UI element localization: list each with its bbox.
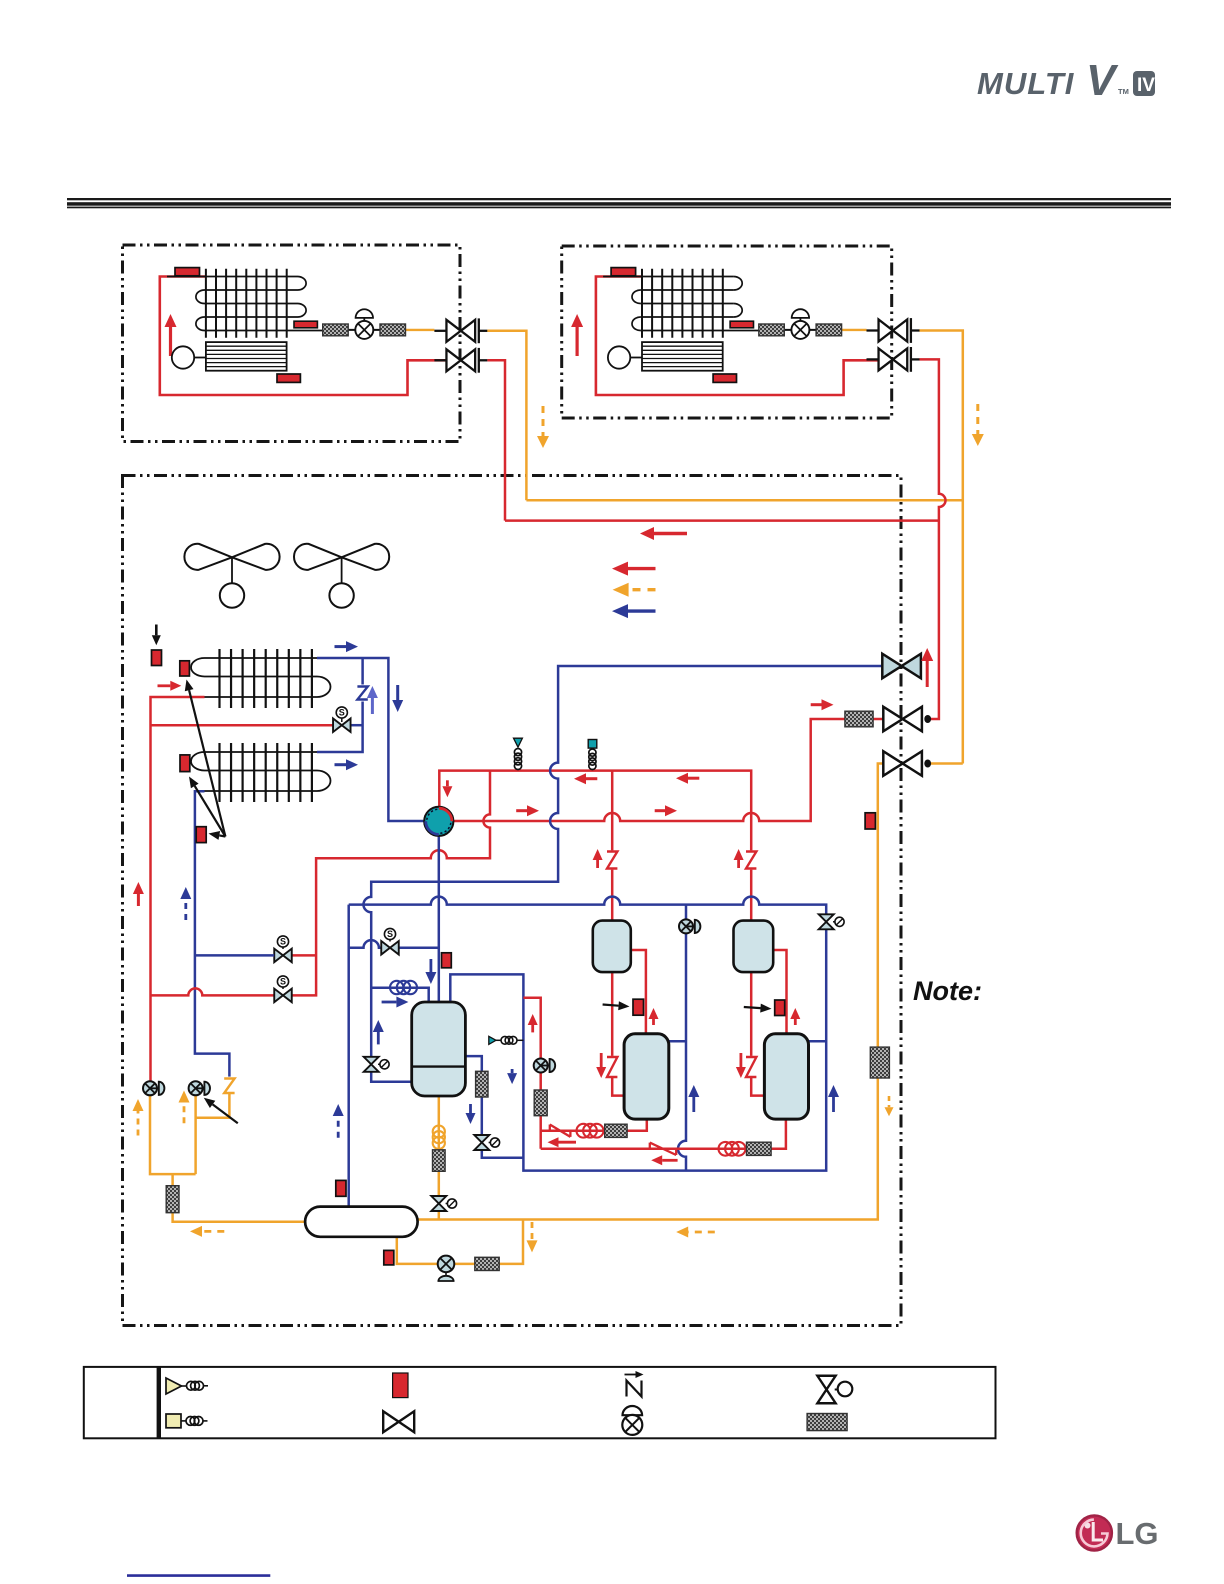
- injection heat-exchange coil: [390, 981, 403, 994]
- separator B oil return with Z break: [751, 972, 764, 1096]
- compressor B: [764, 1034, 808, 1119]
- indoor fan outlet sensor: [277, 374, 300, 382]
- orange dashed up arrow right charge line: [179, 1091, 190, 1124]
- 4-way valve to subcooler pipe: [438, 836, 441, 1002]
- indoor coil inlet temperature sensor: [611, 268, 636, 276]
- indoor unit 1 enclosure: [123, 245, 461, 442]
- double rule: [67, 198, 1171, 200]
- separator A oil return with Z break: [612, 972, 624, 1096]
- legend service valve symbol: [622, 1406, 642, 1435]
- legend arrow orange dashed: [613, 583, 656, 597]
- blue up arrow compressor A leg: [688, 1085, 699, 1112]
- oil equalization line compressor A: [541, 1119, 647, 1131]
- liquid charge valve A: [143, 1081, 164, 1095]
- subcooler outlet strainer: [433, 1150, 446, 1172]
- oil balance ball valve: [883, 751, 931, 776]
- subcooler drain line: [465, 1056, 523, 1158]
- liquid service ball valve: [882, 654, 921, 679]
- discharge sensor A with arrow: [603, 999, 644, 1015]
- accumulator inlet line left: [150, 1095, 305, 1222]
- indoor unit 2 enclosure: [562, 246, 892, 418]
- black callout arrows to sensors: [185, 680, 226, 840]
- indoor strainer 2: [816, 324, 842, 336]
- subcooler solenoid valve SV2: [381, 928, 399, 954]
- svg-text:S: S: [387, 929, 393, 939]
- HP service valve with cap: [534, 1059, 555, 1073]
- subcooler drain strainer: [476, 1071, 488, 1097]
- relief valve on subcooler loop: [489, 1036, 524, 1044]
- subcooler left leg expansion valve EEV2: [364, 1057, 389, 1072]
- liquid pipe indoor1 to trunk: [487, 331, 526, 500]
- outdoor unit enclosure: [123, 476, 902, 1326]
- outdoor fan 1: [184, 544, 279, 608]
- blue down arrow at suction header: [392, 685, 403, 712]
- discharge sensor B with arrow: [744, 1000, 785, 1016]
- red arrow into coil1: [158, 681, 182, 691]
- orange dashed flow arrow at indoor2 drop: [972, 404, 984, 446]
- lower branch red line with hop: [151, 988, 275, 995]
- indoor unit flow arrow: [571, 314, 583, 356]
- outdoor coil 2: [191, 743, 331, 802]
- legend sensor symbol: [393, 1373, 408, 1398]
- red arrow oil line B left: [548, 1137, 577, 1147]
- blue arrow coil1 outlet: [335, 641, 359, 652]
- lower branch solenoid valve SV4: [274, 976, 292, 1002]
- legend capillary symbol: [625, 1371, 644, 1397]
- red arrow oil line B right: [651, 1155, 677, 1165]
- liquid drop to accumulator bottom loop: [397, 1220, 523, 1264]
- discharge bypass drop with hop over line2: [292, 771, 490, 996]
- red flow arrow beside separator A Z: [593, 849, 603, 868]
- subcooler solenoid branch: [349, 940, 439, 948]
- upper branch solenoid valve SV1: [274, 936, 292, 962]
- subcooler drain expansion valve EEV3: [474, 1135, 499, 1150]
- defrost sensor coil2: [180, 755, 190, 772]
- hot-gas line2 from 4-way valve to gas ball valve: [453, 719, 883, 821]
- red up arrow HP branch: [528, 1014, 538, 1032]
- defrost sensor coil1: [180, 661, 190, 676]
- indoor coil outlet sensor: [294, 321, 317, 328]
- orange dashed down arrow right liquid drop: [885, 1096, 894, 1116]
- accumulator suction drop: [347, 905, 350, 1207]
- legend expansion valve symbol: [817, 1376, 852, 1404]
- indoor coil inlet temperature sensor: [175, 268, 200, 276]
- oil return pipe to charge valve line: [196, 1093, 230, 1118]
- indoor unit 1 gas service valve: [434, 348, 487, 373]
- gas service ball valve: [883, 707, 931, 732]
- indoor liquid pipe: [759, 329, 791, 331]
- red arrow before gas ball valve: [811, 699, 834, 710]
- HP branch strainer: [534, 1090, 547, 1116]
- svg-text:S: S: [280, 977, 286, 987]
- indoor strainer 1: [323, 324, 349, 336]
- subcooler liquid out drop: [438, 1096, 441, 1220]
- capillary Z at separator B inlet: [746, 852, 756, 869]
- liquid line ball valve to receiver drop: [418, 764, 963, 1220]
- check valve on oil line A: [550, 1125, 571, 1137]
- legend box: [84, 1367, 996, 1438]
- compressor A right connection: [669, 1040, 686, 1043]
- indoor fan outlet sensor: [713, 374, 736, 382]
- legend arrow red: [612, 562, 656, 576]
- compressor B right connection: [809, 1040, 827, 1043]
- liquid line strainer right: [870, 1047, 889, 1078]
- blue stub coil solenoid to balance pipe: [350, 724, 363, 727]
- LG logo: [1077, 1515, 1159, 1551]
- black callout arrow to charge valve B: [204, 1098, 238, 1123]
- indoor strainer 1: [759, 324, 785, 336]
- red down arrow separator A oil return: [596, 1053, 606, 1078]
- blue line to SV1: [195, 954, 274, 957]
- red line to coil solenoid valve: [151, 724, 335, 727]
- liquid charge valve B: [189, 1081, 210, 1095]
- HP red branch from subcooler loop: [523, 998, 540, 1149]
- footer rule: [127, 1574, 270, 1577]
- Z symbol separator A oil return: [607, 1057, 617, 1077]
- orange dashed down arrow at receiver tee: [527, 1222, 538, 1252]
- blue dashed up arrow left suction: [180, 887, 191, 920]
- subcooler injection branch with coil: [371, 988, 429, 1002]
- Z symbol separator B oil return: [746, 1057, 756, 1077]
- red up arrow left liquid line: [133, 882, 144, 906]
- suction sensor at accumulator: [336, 1180, 346, 1196]
- accumulator: [305, 1207, 418, 1237]
- oil drain service valve: [438, 1256, 455, 1281]
- outdoor fan 2: [294, 544, 389, 608]
- orange dashed up arrow left charge line: [133, 1099, 144, 1136]
- liquid pipe indoor2 to trunk: [920, 331, 963, 764]
- accumulator bottom strainer: [475, 1257, 499, 1270]
- indoor unit 2 gas service valve: [867, 347, 920, 372]
- gas ball valve strainer: [845, 711, 873, 727]
- sensor at liquid drop: [865, 813, 875, 829]
- blue down arrow drain lower: [466, 1104, 476, 1124]
- orange dashed left arrow at accumulator inlet: [190, 1226, 224, 1237]
- blue dashed up arrow at accumulator inlet: [333, 1104, 344, 1138]
- strainer oil line B: [747, 1142, 772, 1155]
- oil return capillary Z orange: [224, 1079, 234, 1094]
- indoor unit 1 liquid service valve: [434, 318, 487, 343]
- oil equalization line compressor B: [541, 1119, 786, 1149]
- indoor liquid pipe: [323, 329, 355, 331]
- accumulator bottom sensor: [384, 1250, 394, 1265]
- coil1 suction header pipe: [317, 658, 424, 821]
- svg-text:IV: IV: [1137, 75, 1155, 96]
- indoor electronic expansion valve: [355, 309, 373, 339]
- svg-text:S: S: [339, 708, 345, 718]
- red flow arrow line2 left: [516, 805, 539, 816]
- gas pipe indoor1 to trunk: [487, 360, 505, 520]
- indoor unit flow arrow: [165, 314, 177, 356]
- red flow arrow line2 right: [655, 805, 677, 816]
- indoor coil outlet sensor: [730, 321, 753, 328]
- indoor fan: [608, 342, 723, 371]
- MULTI V IV logo: [977, 56, 1155, 105]
- legend high pressure switch symbol: [166, 1378, 208, 1394]
- service port valve on compressor A riser: [679, 919, 700, 933]
- red flow arrow line1 right: [676, 773, 699, 784]
- suction pipe sensor: [196, 827, 206, 843]
- svg-text:V: V: [1086, 56, 1119, 105]
- svg-text:TM: TM: [1118, 87, 1129, 96]
- svg-text:Note:: Note:: [913, 976, 982, 1006]
- outdoor coil sensor with arrow: [152, 625, 162, 666]
- svg-text:S: S: [280, 937, 286, 947]
- coil1 liquid pipe: [151, 697, 205, 1082]
- high pressure sensor on line1: [588, 740, 597, 770]
- capillary Z at separator A inlet: [607, 852, 617, 869]
- svg-text:MULTI: MULTI: [977, 66, 1075, 101]
- red spring oil line B: [719, 1142, 733, 1156]
- indoor fan: [172, 342, 287, 371]
- strainer oil line A: [605, 1124, 627, 1137]
- blue down arrow into subcooler: [425, 959, 436, 984]
- svg-text:LG: LG: [1116, 1516, 1159, 1551]
- oil separator B: [734, 921, 774, 973]
- legend solenoid valve symbol: [383, 1411, 399, 1432]
- red branch upper solenoid line: [292, 954, 316, 957]
- blue up arrow compressor B leg: [828, 1085, 839, 1112]
- blue down arrow drain upper: [507, 1069, 517, 1084]
- blue right arrow injection line: [382, 997, 409, 1008]
- red flow arrow line1 left: [574, 773, 597, 784]
- red down arrow separator B oil return: [736, 1053, 746, 1078]
- indoor heat-exchanger coil: [603, 269, 759, 338]
- red flow arrow above outdoor box: [640, 527, 687, 540]
- liquid trunk horizontal: [526, 499, 962, 502]
- red arrow beside liquid ball valve: [921, 648, 933, 687]
- high pressure switch on line1: [514, 738, 523, 769]
- sensor at subcooler inlet: [442, 953, 452, 968]
- compressor A: [624, 1034, 669, 1119]
- red up arrow discharge A: [649, 1008, 659, 1025]
- suction line from gas ball valve: [364, 666, 883, 1082]
- indoor strainer 2: [380, 324, 406, 336]
- indoor unit 2 liquid service valve: [867, 318, 920, 343]
- subcooler vessel: [412, 1002, 466, 1096]
- indoor unit red pipe loop: [160, 277, 447, 396]
- orange dashed flow arrow at indoor1 drop: [537, 406, 549, 448]
- indoor unit red pipe loop: [596, 277, 879, 396]
- red spring oil line A: [577, 1124, 591, 1138]
- indoor heat-exchanger coil: [167, 269, 323, 338]
- red flow arrow beside separator B Z: [734, 849, 744, 868]
- legend strainer symbol: [807, 1414, 847, 1431]
- hot-gas branch to oil separator A: [611, 771, 614, 921]
- oil separator A: [593, 921, 631, 973]
- compressor A discharge riser vertical: [678, 905, 686, 1171]
- red up arrow discharge B: [790, 1008, 800, 1025]
- gas trunk horizontal: [505, 519, 939, 522]
- legend arrow blue: [612, 604, 656, 618]
- blue arrow coil2 outlet: [335, 759, 359, 770]
- outdoor coil 1: [191, 649, 331, 708]
- suction manifold and compressor loop: [349, 897, 827, 1171]
- coil2 outlet pipe to suction drop: [195, 791, 230, 1076]
- red down arrow at 4-way valve inlet: [442, 780, 452, 797]
- coil solenoid valve SV3: [333, 707, 351, 732]
- oil balance valve on compressor B riser: [819, 914, 844, 929]
- separator A outlet to compressor A: [631, 950, 646, 1034]
- gas pipe indoor2 riser with hop over liquid trunk: [920, 359, 946, 719]
- blue up arrow subcooler left leg: [373, 1020, 384, 1044]
- main liquid expansion valve EEV1: [431, 1196, 456, 1211]
- capillary Z symbol on coil balance pipe: [357, 687, 367, 700]
- hot-gas line1 from 4-way valve: [439, 771, 751, 921]
- separator B outlet to compressor B: [773, 950, 786, 1034]
- legend pressure sensor symbol: [166, 1414, 208, 1428]
- indoor electronic expansion valve: [791, 309, 809, 339]
- subcooler outlet coil: [433, 1126, 445, 1138]
- orange dashed left arrow on liquid header: [676, 1227, 715, 1238]
- coil balance pipe with capillary break: [317, 658, 363, 752]
- left inlet strainer: [166, 1186, 179, 1213]
- light blue up arrow at balance pipe: [367, 686, 378, 714]
- check valve on oil line B: [650, 1143, 676, 1155]
- 4-way reversing valve: [424, 807, 453, 836]
